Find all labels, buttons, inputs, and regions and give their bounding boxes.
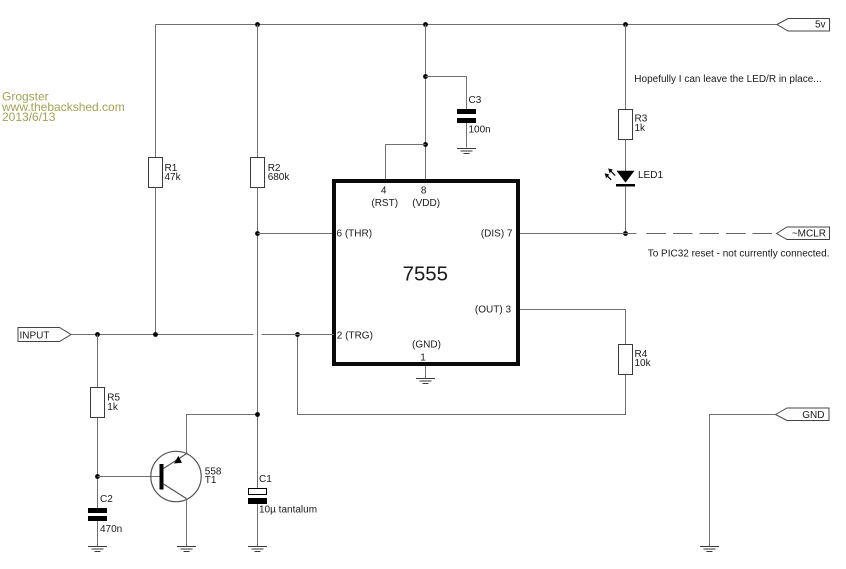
- svg-text:2013/6/13: 2013/6/13: [2, 110, 56, 124]
- 5V power rail wire: [156, 24, 778, 26]
- svg-text:470n: 470n: [100, 524, 122, 535]
- node base: [95, 474, 100, 479]
- wire R2 top: [257, 25, 259, 158]
- capacitor C1: [248, 474, 317, 516]
- capacitor C3: [457, 95, 491, 136]
- svg-text:GND: GND: [802, 410, 824, 421]
- wire emitter: [187, 415, 258, 453]
- wire VDD: [425, 25, 427, 180]
- wire R5 top: [97, 335, 99, 388]
- resistor R1: [149, 158, 182, 188]
- svg-text:C2: C2: [100, 494, 113, 505]
- wire base: [98, 476, 160, 478]
- wire C2 to ground: [97, 521, 99, 546]
- resistor R3: [619, 110, 648, 140]
- resistor R4: [619, 345, 652, 375]
- svg-text:C1: C1: [259, 474, 272, 485]
- wire R5 bottom to C2: [97, 418, 99, 509]
- svg-text:100n: 100n: [469, 125, 491, 136]
- flag GND: [776, 408, 830, 421]
- ground T1: [177, 547, 196, 552]
- svg-text:To PIC32 reset - not currently: To PIC32 reset - not currently connected…: [648, 249, 830, 260]
- svg-text:6 (THR): 6 (THR): [337, 228, 373, 239]
- wire OUT: [520, 310, 626, 345]
- ground C2: [88, 547, 107, 552]
- wire R1 top: [155, 25, 157, 158]
- node DIS LED: [623, 231, 628, 236]
- flag ~MCLR: [777, 227, 830, 240]
- wire C3 to ground: [466, 123, 468, 148]
- ground GND: [700, 547, 719, 552]
- svg-text:(DIS) 7: (DIS) 7: [481, 228, 513, 239]
- wire DIS: [520, 233, 637, 235]
- node rail R2: [255, 22, 260, 27]
- flag INPUT: [18, 328, 71, 342]
- wire R1 bottom: [155, 188, 157, 335]
- wire R3 top: [625, 25, 627, 110]
- wire GND flag: [710, 415, 776, 547]
- wire MCLR dashed: [647, 233, 777, 235]
- svg-text:10µ tantalum: 10µ tantalum: [259, 505, 317, 516]
- svg-text:4: 4: [381, 185, 387, 196]
- wire INPUT left: [71, 334, 254, 336]
- ground C1: [248, 547, 267, 552]
- wire RST link: [386, 145, 426, 180]
- wire C3 branch: [426, 77, 467, 110]
- ground pin1: [416, 379, 435, 384]
- svg-text:(RST): (RST): [371, 198, 398, 209]
- wire LED to DIS: [625, 186, 627, 234]
- svg-text:1k: 1k: [107, 402, 119, 413]
- node THR: [255, 231, 260, 236]
- wire INPUT right: [262, 334, 335, 336]
- node rail VDD: [423, 22, 428, 27]
- node rail R3: [623, 22, 628, 27]
- IC U1 7555: [334, 181, 518, 364]
- wire R2 bottom to C1: [257, 188, 259, 489]
- svg-text:10k: 10k: [635, 358, 652, 369]
- node VDD RST: [423, 142, 428, 147]
- svg-text:7555: 7555: [403, 263, 448, 285]
- svg-text:1: 1: [420, 353, 426, 364]
- svg-text:INPUT: INPUT: [20, 331, 50, 342]
- node INPUT R1: [153, 332, 158, 337]
- wire pin1 ground stem: [425, 366, 427, 378]
- node VDD C3: [423, 74, 428, 79]
- wire C1 to ground: [257, 504, 259, 546]
- svg-text:8: 8: [421, 185, 427, 196]
- wire collector: [186, 499, 188, 546]
- node emitter C1: [255, 412, 260, 417]
- transistor T1 558: [151, 451, 222, 501]
- svg-text:(GND): (GND): [412, 339, 441, 350]
- svg-text:(OUT) 3: (OUT) 3: [475, 304, 512, 315]
- resistor R5: [91, 388, 121, 418]
- capacitor C2: [88, 494, 122, 535]
- wire THR: [258, 233, 333, 235]
- svg-text:680k: 680k: [268, 172, 291, 183]
- LED LED1: [605, 168, 664, 186]
- node TRG: [295, 332, 300, 337]
- svg-text:LED1: LED1: [638, 170, 663, 181]
- flag 5v: [777, 19, 830, 32]
- node INPUT R5: [95, 332, 100, 337]
- wire R4 bottom to TRG: [298, 335, 626, 415]
- svg-text:C3: C3: [469, 95, 482, 106]
- credits text: [1, 90, 125, 125]
- resistor R2: [251, 158, 291, 188]
- ground C3: [457, 149, 476, 154]
- svg-text:T1: T1: [205, 475, 217, 486]
- svg-text:1k: 1k: [635, 123, 647, 134]
- svg-text:5v: 5v: [815, 19, 826, 30]
- svg-text:Hopefully I can leave the LED/: Hopefully I can leave the LED/R in place…: [634, 74, 821, 85]
- svg-text:47k: 47k: [165, 172, 182, 183]
- svg-text:(VDD): (VDD): [412, 198, 440, 209]
- wire R3 to LED: [625, 140, 627, 172]
- svg-text:~MCLR: ~MCLR: [792, 229, 826, 240]
- svg-text:2 (TRG): 2 (TRG): [337, 331, 373, 342]
